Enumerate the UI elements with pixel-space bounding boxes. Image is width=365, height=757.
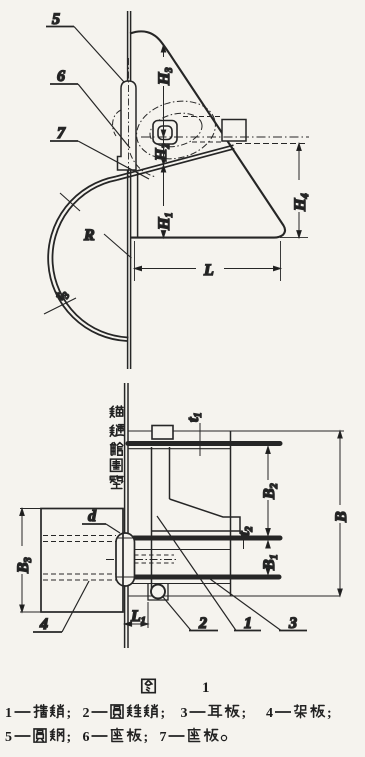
seat plate 7: sloped double line tangent to arc — [116, 145, 234, 180]
legend line 2: 5—圆钢； 6—座板； 7—座板。 — [5, 728, 227, 745]
legend line 1: 1—插销； 2—圆锥销； 3—耳板； 4—架板； — [5, 705, 332, 721]
hidden pin lines behind plate — [134, 555, 174, 563]
bulkhead wall (vertical double line, front view) — [125, 383, 128, 648]
t3 thickness leader crossing arc — [44, 298, 76, 314]
svg-text:4: 4 — [39, 616, 48, 633]
dimension B2 line — [266, 447, 270, 536]
caption 图 1 — [142, 679, 155, 692]
dimension H1 line — [161, 165, 165, 238]
round steel rod 5c (bottom, thick) — [133, 575, 279, 580]
svg-text:;: ; — [144, 730, 149, 745]
cone pin 2 (circle) — [151, 585, 165, 599]
tab on top of seat plate — [152, 426, 173, 440]
capsule centerline (dash-dot) — [106, 559, 176, 561]
pin centerline — [128, 58, 130, 178]
svg-text:7: 7 — [160, 730, 167, 745]
seat plate 7: curved arc R (double line) — [48, 177, 128, 342]
callout 1 leader — [157, 516, 261, 631]
svg-text:d: d — [88, 508, 97, 525]
svg-text:;: ; — [161, 706, 166, 721]
svg-text:5: 5 — [5, 730, 12, 745]
bulkhead label 锚链舱围壁 (vertical) — [110, 406, 124, 489]
svg-text:7: 7 — [57, 125, 66, 142]
dimension L line — [135, 266, 281, 270]
line under rod 5b — [128, 549, 231, 551]
svg-text:;: ; — [67, 730, 72, 745]
svg-text:1: 1 — [202, 680, 210, 696]
line under rod 5c — [128, 583, 230, 585]
svg-text:5: 5 — [52, 11, 60, 28]
dimension H4 line — [297, 144, 301, 238]
svg-text:6: 6 — [57, 68, 65, 85]
dimension B1 line — [266, 541, 270, 575]
leader 7 — [50, 141, 149, 179]
dimension H2 line — [163, 137, 165, 165]
B3 extension lines — [20, 509, 41, 613]
callout 2 leader — [163, 597, 218, 631]
seat plate left edge (front) — [151, 447, 153, 594]
leader 6 — [50, 84, 130, 148]
t2 label and line — [243, 536, 245, 549]
svg-text:3: 3 — [181, 706, 188, 721]
callout 4 leader — [33, 581, 89, 632]
dimension B3 line — [20, 509, 24, 613]
hidden dashed lines to support bar — [183, 117, 222, 143]
bottom edge line (B extension bottom) — [128, 595, 340, 597]
pin hidden rod crossings inside capsule — [117, 538, 135, 577]
ear plate U1 outline: top curve, main diagonal, rounded corner, bottom edge — [130, 31, 285, 237]
top edge line (B extension top) — [128, 430, 344, 432]
dimension H4 extension (dashed) — [236, 143, 308, 145]
ear plate 3 profile: slant and protrusion — [152, 499, 241, 531]
L extension lines — [135, 241, 281, 281]
radius R annotation line — [60, 193, 132, 258]
frame plate 4 (left rectangle) — [41, 509, 123, 613]
main plate right edge — [230, 431, 232, 596]
chain link phantom outer (dash-dot oval) — [130, 93, 221, 167]
dimension B line — [338, 431, 342, 596]
ear plate left edge — [137, 172, 139, 238]
dimension L1 — [125, 602, 148, 628]
svg-text:;: ; — [242, 706, 247, 721]
chain link end-on section (solid) — [153, 121, 177, 145]
svg-text:R: R — [83, 227, 95, 244]
leader 5 — [46, 27, 124, 83]
svg-text:4: 4 — [266, 706, 273, 721]
line under rod 5a — [128, 448, 231, 450]
hidden rod lines in frame plate (dashed) — [43, 536, 116, 581]
H4 bottom extension — [280, 237, 308, 239]
t1 dimension line — [199, 423, 201, 456]
svg-text:1: 1 — [244, 615, 252, 632]
svg-text:3: 3 — [288, 615, 297, 632]
svg-text:6: 6 — [83, 730, 90, 745]
d label and leader — [82, 524, 120, 533]
cone pin 2 housing — [148, 584, 168, 601]
svg-text:2: 2 — [83, 706, 90, 721]
support bar 5 end section (right rectangle) — [222, 120, 246, 142]
svg-text:L: L — [203, 262, 214, 279]
svg-text:1: 1 — [5, 706, 12, 721]
callout 3 leader — [206, 576, 307, 631]
insert pin 1 (vertical capsule over bulkhead) — [116, 533, 135, 586]
chain centerline (dash-dot) — [141, 136, 309, 138]
svg-text:B: B — [333, 511, 350, 523]
svg-text:;: ; — [67, 706, 72, 721]
svg-text:2: 2 — [198, 615, 207, 632]
seat plate bend line — [169, 447, 171, 499]
round steel rod 5a (top, thick) — [128, 441, 280, 446]
round steel pin 5 (vertical, rounded top, with foot) — [118, 81, 137, 170]
bulkhead wall (vertical plate, top view) — [128, 11, 131, 369]
svg-text:;: ; — [327, 706, 332, 721]
round steel rod 5b (middle, thick) — [134, 536, 280, 541]
dimension H3 line — [161, 45, 165, 137]
